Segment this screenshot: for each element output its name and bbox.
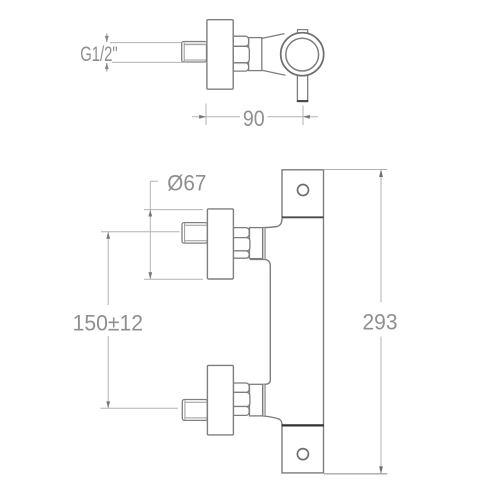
dimension G1/2": arrow up xyxy=(105,63,109,72)
dimension G1/2": extension line top xyxy=(110,42,182,44)
side view: handle lever xyxy=(297,75,308,102)
dimension 150±12: vertical line lower segment xyxy=(107,336,109,408)
front view: upper neck ring xyxy=(263,228,266,259)
side view: hex nut band 1 xyxy=(233,36,248,46)
front view: upper hex band 2 xyxy=(233,238,250,251)
front view: upper collar xyxy=(250,228,263,259)
front view: lower collar xyxy=(250,384,263,416)
svg-text:293: 293 xyxy=(363,309,398,334)
front view: body outline upper fillet and elbow top edge xyxy=(263,218,282,228)
front view: bottom mounting bracket xyxy=(282,425,324,473)
side view: collar ring xyxy=(249,38,262,71)
front view: lower hex band 3 xyxy=(233,407,249,416)
front view: bottom bracket screw hole xyxy=(297,449,308,460)
dimension 293: extension line top xyxy=(324,169,388,171)
side view: valve body outer circle xyxy=(281,33,324,76)
dimension 293: arrow up xyxy=(379,170,383,178)
side view: knob inner circle xyxy=(286,38,319,71)
svg-text:90: 90 xyxy=(243,106,265,131)
front view: lower neck ring xyxy=(263,384,266,416)
dimension 90: left tick xyxy=(205,104,207,126)
front view: lower inlet nipple xyxy=(182,400,207,421)
dimension 90: arrow left-pointing xyxy=(303,115,310,119)
front view: upper hex band 1 xyxy=(233,228,249,238)
dimension 293: arrow down xyxy=(379,466,383,474)
front view: top mounting bracket xyxy=(282,170,324,218)
dimension Ø67: arrow down xyxy=(148,272,152,279)
front view: top bracket screw hole xyxy=(298,185,309,196)
front view: upper elbow bottom edge, column left edge, lower elbow top edge xyxy=(250,259,270,384)
dimension 150±12: vertical line upper segment xyxy=(107,232,109,305)
front view: upper inlet nipple xyxy=(182,223,207,244)
side view: hex nut band 2 xyxy=(233,46,249,63)
front view: lower hex band 2 xyxy=(233,392,250,406)
front view: lower elbow bottom fillet and body bottom edge xyxy=(263,416,282,425)
svg-text:150±12: 150±12 xyxy=(73,310,144,335)
side view: wall escutcheon plate xyxy=(207,20,233,90)
dimension 90: right tick xyxy=(302,106,304,126)
front view: lower escutcheon plate xyxy=(207,365,233,435)
front view: lower hex band 1 xyxy=(233,383,249,392)
side view: taper cone to valve body xyxy=(262,34,286,76)
dimension 293: vertical line upper segment xyxy=(380,170,382,302)
dimension 150±12: extension line bottom xyxy=(101,407,179,409)
dimension 150±12: arrow up xyxy=(106,232,110,239)
dimension 90: arrow right-pointing xyxy=(199,115,206,119)
dimension 90: line left segment xyxy=(192,116,240,118)
svg-text:Ø67: Ø67 xyxy=(167,170,206,195)
dimension Ø67: vertical line xyxy=(149,181,151,279)
front view: upper hex band 3 xyxy=(233,251,249,258)
dimension Ø67: extension line top xyxy=(144,209,203,211)
dimension G1/2": extension line bottom xyxy=(112,61,187,63)
dimension Ø67: leader hook xyxy=(150,180,158,182)
dimension 150±12: arrow down xyxy=(106,401,110,408)
side view: hex nut band 3 xyxy=(233,63,248,71)
svg-text:G1/2": G1/2" xyxy=(80,42,118,66)
dimension G1/2": arrow down xyxy=(105,34,109,43)
front view: upper escutcheon plate xyxy=(207,209,233,279)
dimension Ø67: extension line bottom xyxy=(144,278,203,280)
dimension 293: vertical line lower segment xyxy=(380,337,382,474)
side view: G1/2 inlet nipple xyxy=(182,42,207,63)
dimension 150±12: extension line top xyxy=(101,231,180,233)
dimension 90: line right segment xyxy=(268,116,319,118)
dimension 293: extension line bottom xyxy=(282,473,387,475)
front view: column right edge xyxy=(323,218,325,426)
dimension Ø67: arrow up xyxy=(148,210,152,217)
side view: index tab on valve body xyxy=(298,30,308,35)
